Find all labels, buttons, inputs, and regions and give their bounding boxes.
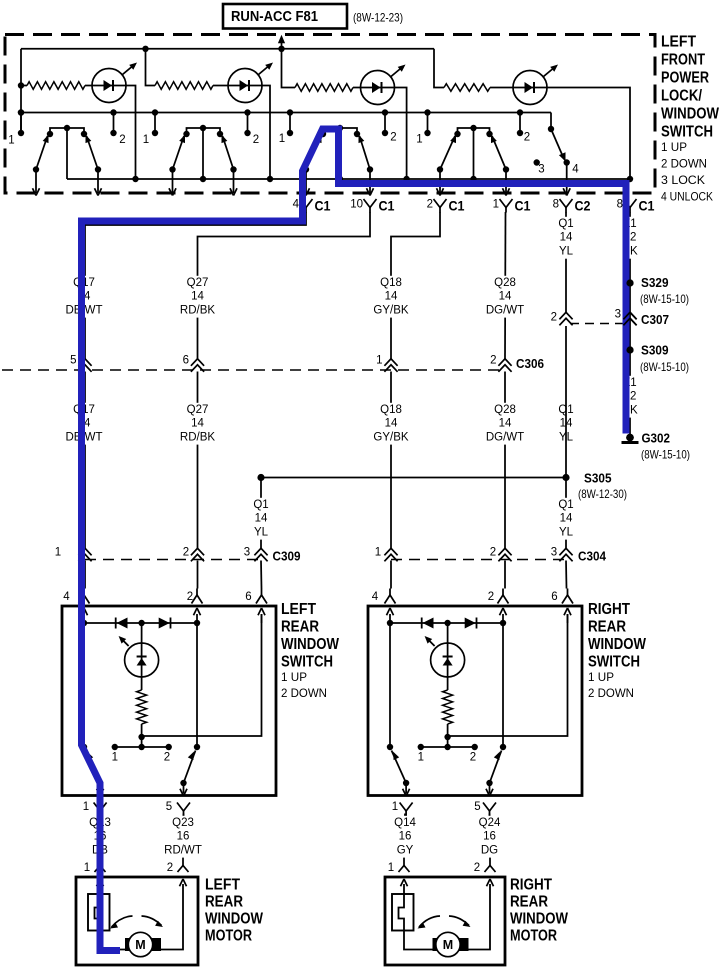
C304 pin 2 <box>490 547 512 562</box>
circuit breaker <box>88 894 110 931</box>
connector below pin1 <box>400 803 413 812</box>
svg-text:C304: C304 <box>578 549 607 564</box>
C309 pin 1 <box>55 547 92 562</box>
svg-text:2: 2 <box>183 547 189 559</box>
wiper left <box>86 751 101 784</box>
resistor section4 <box>444 84 514 92</box>
svg-text:RUN-ACC F81: RUN-ACC F81 <box>231 9 318 25</box>
wire to connector <box>35 170 37 194</box>
svg-text:3: 3 <box>551 547 557 559</box>
svg-text:14: 14 <box>385 291 398 303</box>
diode left <box>115 618 117 629</box>
svg-text:1: 1 <box>83 801 89 813</box>
lamp3 output wire <box>394 88 407 180</box>
label Q18 14 GY/BK lower <box>373 403 409 445</box>
switch section pin stub <box>113 113 115 134</box>
svg-text:WINDOW: WINDOW <box>205 911 263 928</box>
svg-text:SWITCH: SWITCH <box>281 654 333 671</box>
illumination lamp section1 <box>92 63 137 103</box>
label Q27 14 RD/BK lower <box>180 403 215 445</box>
label C306 <box>516 356 544 371</box>
wiper left <box>440 136 455 170</box>
svg-text:M: M <box>443 938 453 952</box>
wire to connector <box>439 170 441 194</box>
switch section pin stub <box>289 113 291 134</box>
C309 pin 2 <box>183 547 204 562</box>
label Q24 16 DG <box>478 816 501 858</box>
resistor4 feed drop <box>434 49 444 88</box>
contact row 1-2 <box>421 746 475 748</box>
switch contact bracket <box>458 128 490 134</box>
motor wire pin2 <box>154 884 184 950</box>
center post drops <box>66 128 68 179</box>
resistor section3 <box>295 84 361 92</box>
wire to motor <box>182 814 185 860</box>
rotation arrows <box>112 916 133 927</box>
connector C1 pin 1 <box>493 199 531 214</box>
splice S329 dot (over highlight) <box>626 279 633 286</box>
motor M <box>433 938 443 951</box>
svg-text:1: 1 <box>392 801 398 813</box>
C304 pin 1 <box>375 547 398 562</box>
label C307 <box>641 312 669 327</box>
lamp2 output wire <box>262 86 271 180</box>
svg-text:5: 5 <box>70 355 76 367</box>
splice S305 branch <box>257 474 569 481</box>
label Q27 14 RD/BK <box>180 276 215 318</box>
label Q1 14 YL right <box>558 498 574 540</box>
svg-text:14: 14 <box>499 418 512 430</box>
svg-text:1: 1 <box>143 134 149 146</box>
wire Q1 from C2 pin8 <box>565 212 567 313</box>
wire to left rear switch <box>84 561 86 589</box>
wire Q18 jog from C1 pin2 <box>391 212 440 359</box>
svg-text:6: 6 <box>183 355 189 367</box>
motor connector pin 2 <box>489 859 491 866</box>
switch section pin stub <box>154 113 156 134</box>
connector C1 pin 10 <box>350 199 395 214</box>
label Q28 14 DG/WT <box>486 276 524 318</box>
pin6 wire to resistor <box>142 614 262 736</box>
svg-text:8: 8 <box>617 199 623 211</box>
rear window switch box <box>368 606 582 796</box>
motor connector pin 2 <box>182 859 184 866</box>
wire to right rear switch <box>390 561 392 589</box>
svg-text:3 LOCK: 3 LOCK <box>661 173 706 187</box>
label Q17 14 DB/WT lower <box>65 403 102 445</box>
wiper right <box>87 136 99 170</box>
lamp1 output wire <box>126 86 136 180</box>
wire to connector <box>305 170 307 194</box>
C307 pin 3 <box>615 309 637 326</box>
C309 pin 3 <box>244 547 268 562</box>
circuit breaker <box>392 894 414 931</box>
wire Q28 lower <box>504 372 506 550</box>
C307 pin 3 chevron (over highlight) <box>623 312 636 325</box>
svg-text:5: 5 <box>166 801 172 813</box>
connector C1 pin 8 <box>617 199 655 214</box>
svg-text:REAR: REAR <box>281 619 319 636</box>
svg-text:M: M <box>135 938 145 952</box>
svg-text:1: 1 <box>388 862 394 874</box>
label Q18 14 GY/BK <box>373 276 409 318</box>
wire out pin5 <box>489 783 491 794</box>
switch pin 2 top <box>196 589 198 596</box>
ground G302 <box>622 431 691 462</box>
svg-text:16: 16 <box>177 831 190 843</box>
svg-text:REAR: REAR <box>588 619 626 636</box>
connector below pin1 <box>94 803 107 812</box>
pin2 column <box>196 623 198 747</box>
connector C309 dashed row <box>85 559 261 561</box>
svg-text:1: 1 <box>112 752 118 764</box>
label Z1 12 BK <box>622 217 638 259</box>
svg-text:14: 14 <box>255 513 268 525</box>
wiper right <box>360 136 371 170</box>
pin2 column <box>502 623 504 747</box>
svg-text:2 DOWN: 2 DOWN <box>588 686 634 700</box>
illumination lamp <box>447 623 449 643</box>
svg-text:Q27: Q27 <box>187 277 209 289</box>
svg-text:2: 2 <box>490 355 496 367</box>
switch contact bracket <box>187 128 221 134</box>
svg-text:LEFT: LEFT <box>281 601 316 618</box>
connector C2 pin 8 <box>553 199 591 214</box>
svg-text:14: 14 <box>191 291 204 303</box>
connector below pin5 <box>177 803 190 812</box>
wiper right <box>492 136 506 170</box>
svg-text:1: 1 <box>493 199 499 211</box>
switch section pin stub <box>247 113 249 134</box>
svg-text:4: 4 <box>372 591 379 603</box>
label C309 <box>273 549 301 564</box>
svg-text:4: 4 <box>63 591 70 603</box>
C306 pin 6 <box>183 355 205 372</box>
svg-text:RD/BK: RD/BK <box>180 431 215 443</box>
switch pin 4 top <box>389 589 391 596</box>
svg-text:Q1: Q1 <box>558 499 573 511</box>
svg-text:(8W-12-30): (8W-12-30) <box>578 487 627 501</box>
switch pin 2 top <box>502 589 504 596</box>
svg-text:POWER: POWER <box>661 70 709 87</box>
svg-text:SWITCH: SWITCH <box>588 654 640 671</box>
svg-text:REAR: REAR <box>205 894 243 911</box>
svg-text:Q24: Q24 <box>479 817 501 829</box>
svg-text:10: 10 <box>350 199 363 211</box>
wire to connector <box>505 170 507 194</box>
svg-text:16: 16 <box>483 831 496 843</box>
wire to connector <box>172 170 174 194</box>
svg-text:Q28: Q28 <box>494 277 516 289</box>
svg-text:6: 6 <box>551 591 557 603</box>
wire to left rear switch <box>260 561 263 589</box>
lock/unlock switch <box>534 113 580 196</box>
svg-text:2: 2 <box>427 199 433 211</box>
svg-text:LEFT: LEFT <box>205 877 240 894</box>
diode right <box>476 618 478 629</box>
svg-text:4: 4 <box>572 164 579 176</box>
pin6 wire to resistor <box>448 614 568 736</box>
svg-text:FRONT: FRONT <box>661 52 705 69</box>
svg-text:C1: C1 <box>515 199 531 214</box>
svg-text:2: 2 <box>167 862 173 874</box>
label Q1 14 YL <box>558 217 574 259</box>
svg-text:C2: C2 <box>575 199 591 214</box>
resistor <box>447 677 449 690</box>
left front power lock/window switch dashed box <box>5 35 655 194</box>
label Q1 14 YL left <box>253 498 269 540</box>
svg-text:2: 2 <box>253 134 259 146</box>
svg-text:Q23: Q23 <box>172 817 194 829</box>
svg-text:14: 14 <box>499 291 512 303</box>
svg-text:8: 8 <box>553 199 559 211</box>
svg-text:14: 14 <box>560 513 573 525</box>
window motor box <box>385 877 505 965</box>
svg-text:2: 2 <box>551 312 557 324</box>
svg-text:WINDOW: WINDOW <box>281 636 339 653</box>
pin4 column <box>83 623 85 747</box>
label Q13 16 DB <box>89 816 111 858</box>
svg-text:GY: GY <box>397 844 414 856</box>
svg-text:S305: S305 <box>584 471 612 486</box>
illumination lamp <box>141 623 143 643</box>
resistor section2 <box>155 82 229 90</box>
svg-text:C307: C307 <box>641 312 669 327</box>
wire to left rear switch <box>197 561 199 589</box>
svg-text:(8W-15-10): (8W-15-10) <box>641 448 690 462</box>
wire Q17 jog from C1 pin4 <box>85 212 306 359</box>
splice S309 dot (over highlight) <box>626 346 633 353</box>
svg-text:RIGHT: RIGHT <box>588 601 630 618</box>
ground G302 dot and bar (over highlight) <box>622 434 639 443</box>
label C304 <box>578 549 607 564</box>
reference (8W-12-23) <box>353 11 403 25</box>
wire out pin1 <box>99 783 101 794</box>
switch contact bracket <box>323 128 357 134</box>
connector below pin5 <box>483 803 496 812</box>
svg-text:REAR: REAR <box>510 894 548 911</box>
svg-text:C1: C1 <box>449 199 465 214</box>
wire to connector <box>97 170 99 194</box>
switch section pin stub <box>20 113 22 134</box>
contact row 1-2 <box>115 746 169 748</box>
svg-text:DG/WT: DG/WT <box>486 304 524 316</box>
svg-text:Q27: Q27 <box>187 404 209 416</box>
svg-text:14: 14 <box>560 232 573 244</box>
window motor box <box>76 877 198 965</box>
svg-text:4: 4 <box>293 199 300 211</box>
illumination lamp section2 <box>228 63 273 103</box>
wire to motor <box>99 814 101 860</box>
wire to right rear switch <box>565 561 568 589</box>
diode left <box>421 618 423 629</box>
motor connector pin 1 <box>99 859 101 866</box>
svg-text:14: 14 <box>191 418 204 430</box>
switch section pin stub <box>427 113 429 134</box>
svg-text:2: 2 <box>119 134 125 146</box>
svg-text:MOTOR: MOTOR <box>510 928 557 945</box>
switch pin 6 top <box>567 589 569 596</box>
svg-text:16: 16 <box>399 831 412 843</box>
svg-text:(8W-12-23): (8W-12-23) <box>353 11 403 25</box>
svg-text:2: 2 <box>390 132 396 144</box>
switch pin 6 top <box>261 589 263 596</box>
bottom bus inside switch <box>67 176 633 182</box>
svg-text:1: 1 <box>375 547 381 559</box>
svg-text:C1: C1 <box>639 199 655 214</box>
svg-text:S329: S329 <box>641 275 669 290</box>
resistor section1 <box>21 82 93 90</box>
wire Q1 to C304 <box>565 478 567 550</box>
wire out pin5 <box>183 783 185 794</box>
wire Q1 left branch <box>260 478 262 550</box>
svg-text:1 UP: 1 UP <box>588 670 614 684</box>
connector C306 dashed row <box>2 369 504 371</box>
diode row <box>84 622 197 624</box>
C304 pin 3 <box>551 547 573 562</box>
svg-text:1 UP: 1 UP <box>661 140 687 154</box>
svg-text:2: 2 <box>187 591 193 603</box>
svg-text:2 DOWN: 2 DOWN <box>281 686 327 700</box>
wire Q17 lower <box>84 372 86 550</box>
C307 pin 2 <box>551 312 573 326</box>
svg-text:MOTOR: MOTOR <box>205 928 252 945</box>
motor connector pin 1 <box>403 859 405 866</box>
highlighted circuit path (blue) <box>82 129 627 951</box>
wiper right <box>184 751 196 784</box>
svg-text:LOCK/: LOCK/ <box>661 88 703 105</box>
illumination lamp section4 <box>513 65 558 105</box>
left rear switch name <box>281 601 339 700</box>
svg-text:LEFT: LEFT <box>661 34 696 51</box>
svg-text:RD/BK: RD/BK <box>180 304 215 316</box>
switch contact bracket <box>50 128 84 134</box>
svg-text:GY/BK: GY/BK <box>373 431 408 443</box>
svg-text:2: 2 <box>474 862 480 874</box>
svg-text:WINDOW: WINDOW <box>510 911 568 928</box>
svg-text:1: 1 <box>418 752 424 764</box>
splice S309 <box>626 343 689 375</box>
feed wire from RUN-ACC into switch <box>278 35 285 49</box>
wiper left <box>306 136 321 170</box>
svg-text:DG/WT: DG/WT <box>486 431 524 443</box>
connector C1 pin 2 <box>427 199 465 214</box>
wiper right <box>223 136 234 170</box>
svg-text:2: 2 <box>164 752 170 764</box>
svg-text:G302: G302 <box>642 431 671 446</box>
label Q14 16 GY <box>394 816 417 858</box>
wire to motor <box>489 814 492 860</box>
wire to right rear switch <box>504 561 506 589</box>
wire Q1 to S305 <box>565 326 567 478</box>
svg-text:C1: C1 <box>379 199 395 214</box>
diode row <box>390 622 503 624</box>
wire Q27 jog from C1 pin10 <box>198 212 371 359</box>
wiper left <box>173 136 185 170</box>
C306 pin 1 <box>376 355 398 372</box>
connector C304 dashed row <box>391 559 566 561</box>
svg-text:1: 1 <box>416 134 422 146</box>
svg-text:Q18: Q18 <box>380 404 402 416</box>
svg-text:C1: C1 <box>315 199 331 214</box>
svg-text:1: 1 <box>279 133 285 145</box>
svg-text:2: 2 <box>470 752 476 764</box>
svg-text:C306: C306 <box>516 356 544 371</box>
wire Q27 lower <box>197 372 199 550</box>
wiper left <box>392 751 407 784</box>
wire Z1 from C1 pin8 <box>629 212 631 437</box>
svg-text:1: 1 <box>55 547 61 559</box>
svg-text:(8W-15-10): (8W-15-10) <box>640 292 689 306</box>
right rear switch name <box>588 601 646 700</box>
label Z1 12 BK lower <box>622 376 638 418</box>
svg-text:1: 1 <box>376 355 382 367</box>
C306 pin 5 <box>70 355 92 372</box>
svg-text:14: 14 <box>385 418 398 430</box>
svg-text:S309: S309 <box>641 343 669 358</box>
svg-text:2: 2 <box>524 132 530 144</box>
svg-text:1: 1 <box>8 135 14 147</box>
svg-text:3: 3 <box>244 547 250 559</box>
svg-text:1: 1 <box>84 862 90 874</box>
top feed rail <box>21 46 434 52</box>
switch name text <box>661 34 719 204</box>
svg-text:(8W-15-10): (8W-15-10) <box>640 360 689 374</box>
svg-text:RD/WT: RD/WT <box>164 844 202 856</box>
rear window switch box <box>62 606 276 796</box>
label Q28 14 DG/WT lower <box>486 403 524 445</box>
svg-text:2: 2 <box>488 591 494 603</box>
motor M <box>125 938 135 951</box>
svg-text:6: 6 <box>245 591 251 603</box>
switch section pin stub <box>384 113 386 134</box>
wire to connector <box>369 170 371 194</box>
svg-text:5: 5 <box>474 801 480 813</box>
svg-text:2: 2 <box>490 547 496 559</box>
svg-text:YL: YL <box>559 526 574 538</box>
label S305 <box>578 471 627 502</box>
wire out pin1 <box>405 783 407 794</box>
wire to connector <box>233 170 235 194</box>
switch section pin stub <box>519 113 521 134</box>
rotation arrows <box>419 916 440 927</box>
svg-text:WINDOW: WINDOW <box>661 106 719 123</box>
section pin number labels <box>8 132 530 147</box>
switch pin 4 top <box>83 589 85 596</box>
illumination lamp section3 <box>361 65 406 105</box>
label Q17 14 DB/WT <box>65 276 102 318</box>
svg-text:3: 3 <box>615 309 621 321</box>
power feed box RUN-ACC F81 <box>223 4 347 29</box>
wire Q18 lower <box>390 372 392 550</box>
svg-text:WINDOW: WINDOW <box>588 636 646 653</box>
motor wire pin2 <box>461 884 490 950</box>
resistor2 feed drop <box>146 49 156 86</box>
svg-text:RIGHT: RIGHT <box>510 877 552 894</box>
svg-text:YL: YL <box>254 526 269 538</box>
svg-text:Q1: Q1 <box>253 499 268 511</box>
svg-text:DG: DG <box>481 844 498 856</box>
svg-text:Q1: Q1 <box>558 218 573 230</box>
diode right <box>170 618 172 629</box>
label Q1 14 YL mid <box>558 403 574 445</box>
svg-text:3: 3 <box>538 164 544 176</box>
svg-text:1 UP: 1 UP <box>281 670 307 684</box>
svg-text:YL: YL <box>559 245 574 257</box>
svg-text:SWITCH: SWITCH <box>661 124 713 141</box>
connector C1 pin 4 <box>293 199 331 214</box>
wiper left <box>36 136 48 170</box>
